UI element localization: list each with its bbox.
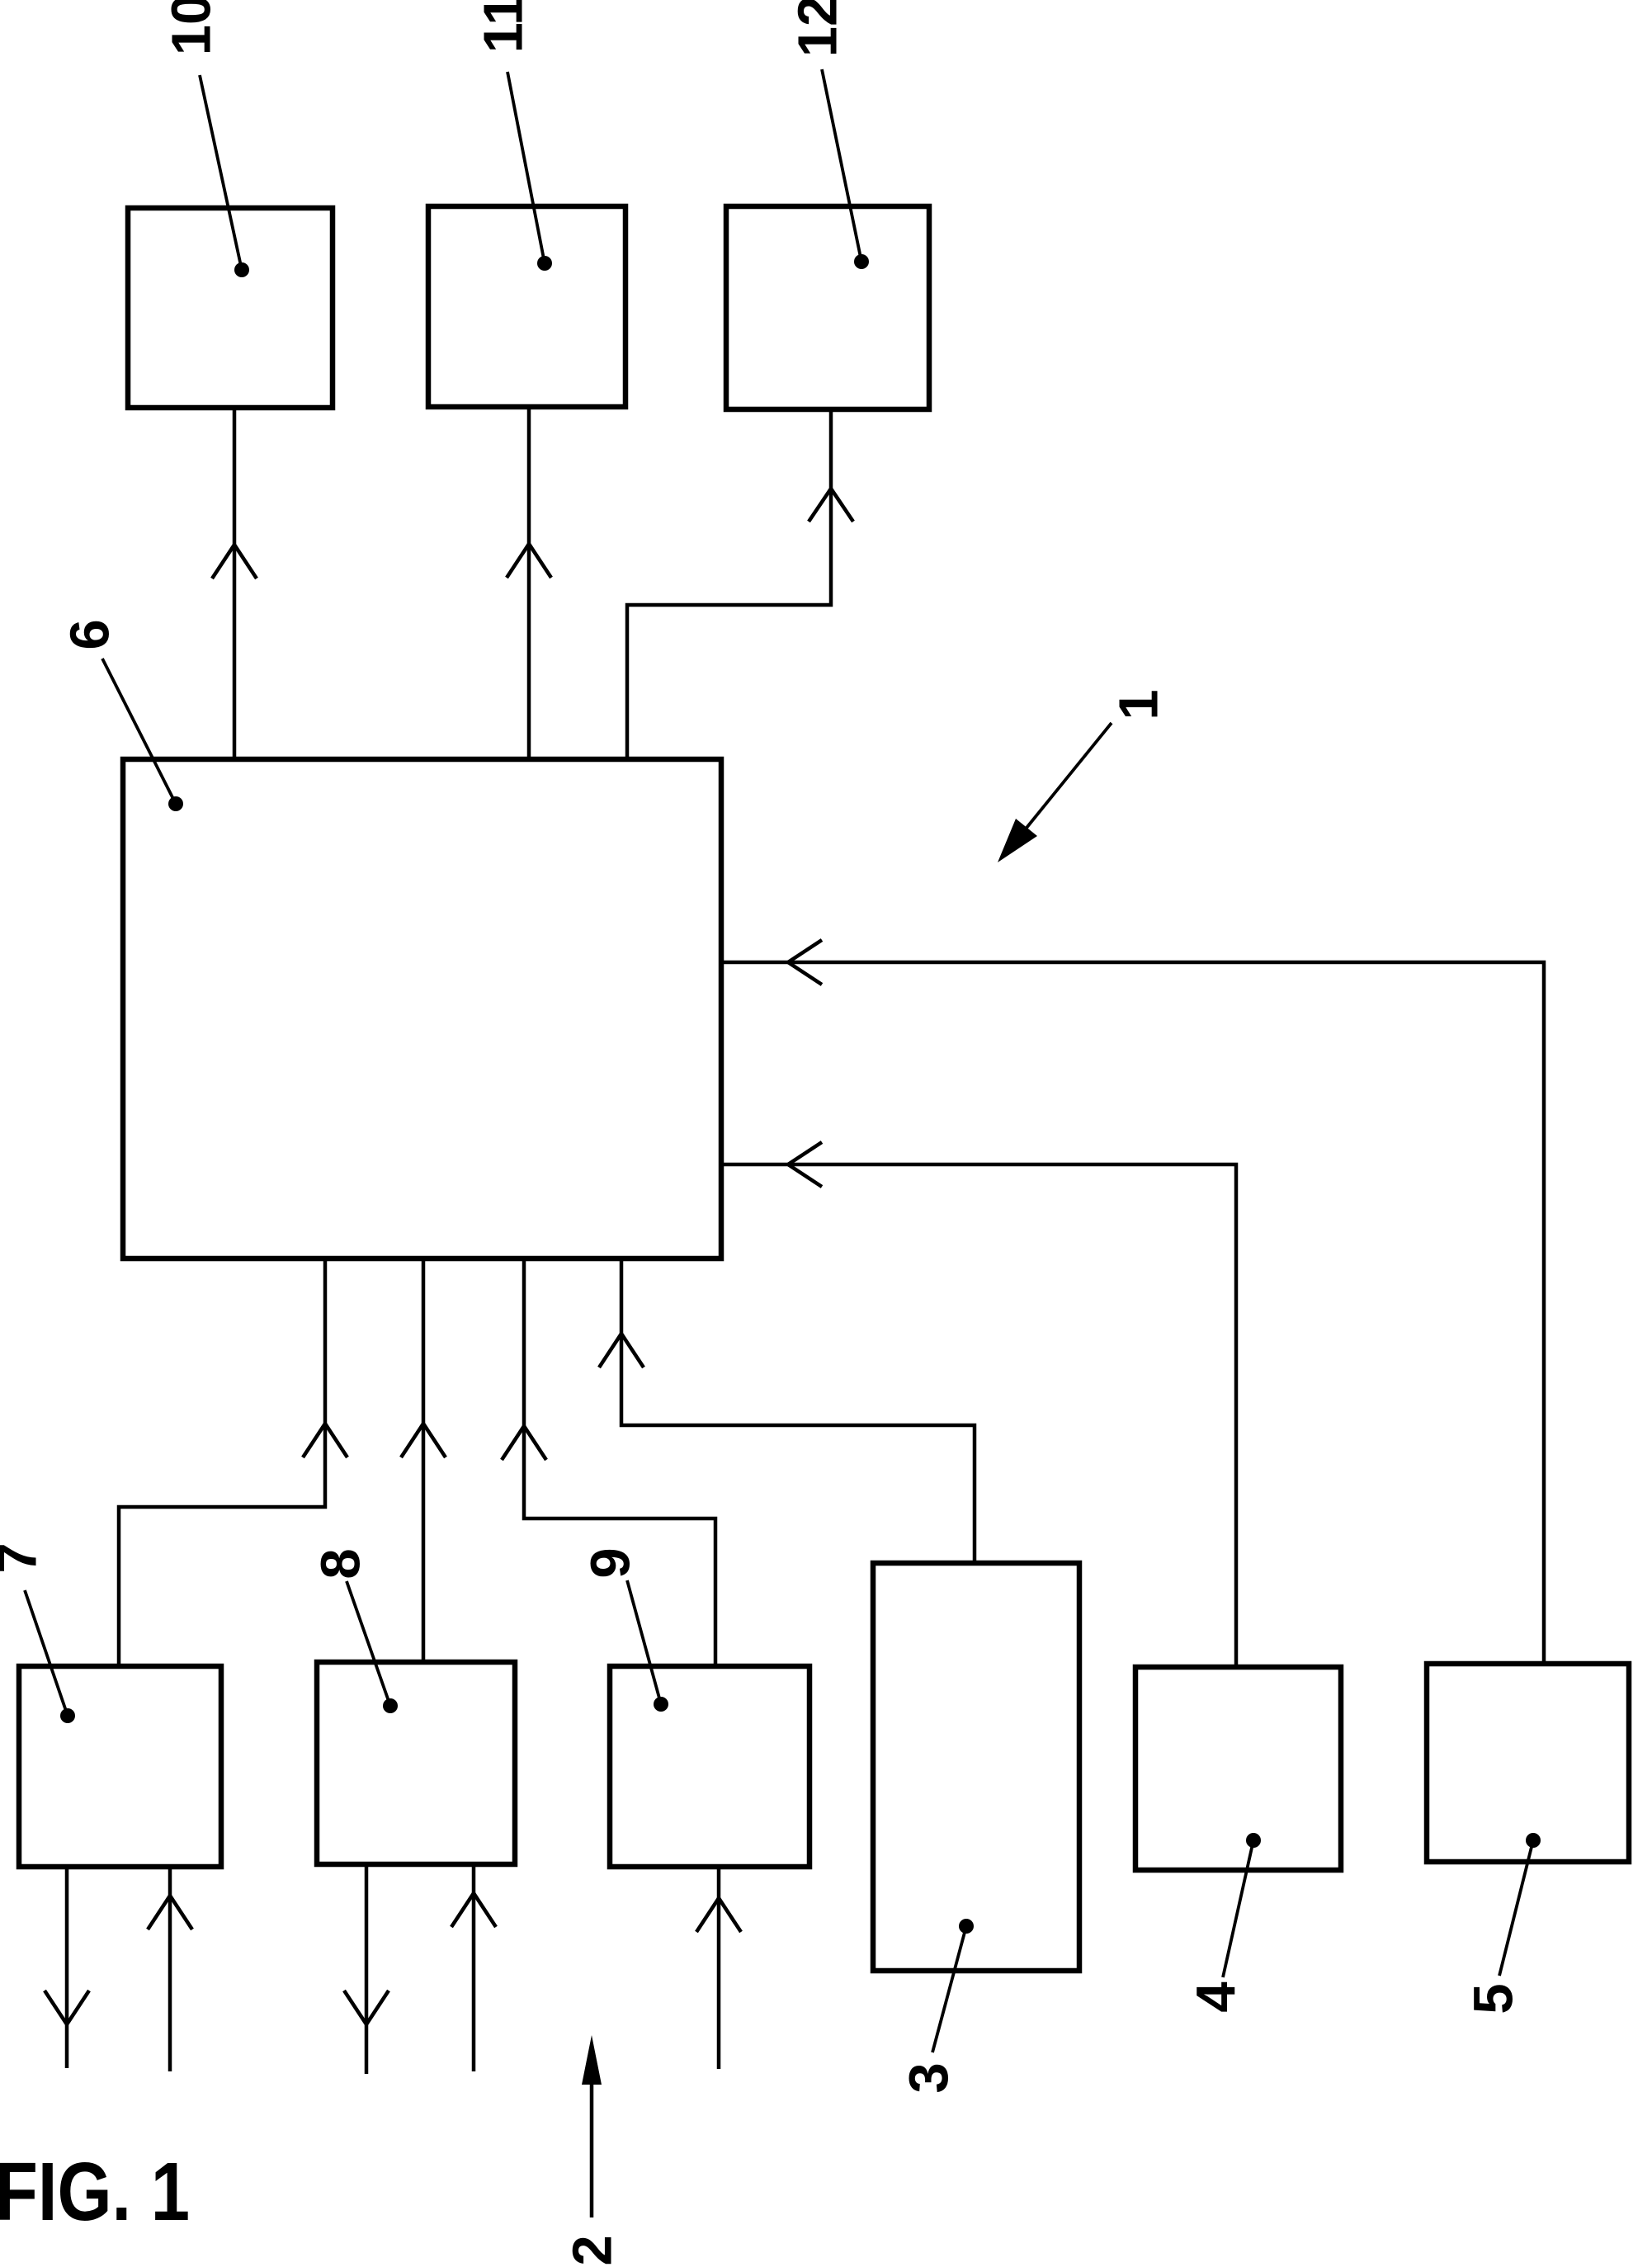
leader line 11 [507, 72, 545, 263]
arrowhead up on input of box7 [148, 1896, 192, 1929]
wire box6 to box10 [233, 408, 237, 759]
wire box8 to box6 [422, 1259, 426, 1662]
arrowhead up on wire from box7 [303, 1424, 347, 1457]
box 8 [317, 1662, 515, 1864]
svg-text:6: 6 [59, 619, 121, 649]
svg-text:5: 5 [1463, 1983, 1525, 2014]
svg-text:4: 4 [1186, 1981, 1248, 2012]
arrow 2 pointer [590, 2083, 594, 2217]
arrowhead up on wire from box3 [599, 1334, 644, 1367]
box 12 [726, 206, 929, 409]
box 4 [1135, 1667, 1341, 1870]
output line below box7 [65, 1867, 69, 2068]
arrowhead up on input of box9 [696, 1898, 741, 1932]
wire box6 to box11 [527, 407, 531, 759]
svg-text:10: 10 [161, 0, 223, 55]
leader line 8 [347, 1581, 390, 1706]
wire box3 to box6 [621, 1259, 975, 1563]
svg-text:7: 7 [0, 1542, 49, 1573]
arrow 1 pointer [1023, 723, 1112, 832]
box 11 [428, 206, 625, 407]
svg-text:1: 1 [1108, 689, 1170, 720]
box 9 [610, 1666, 809, 1867]
svg-text:8: 8 [310, 1548, 372, 1579]
wire box4 to box6 [721, 1164, 1236, 1667]
arrowhead up on wire to box11 [507, 544, 551, 578]
arrowhead up on wire to box9 [502, 1426, 546, 1460]
wire box6 to box12 [627, 409, 831, 759]
leader line 12 [822, 69, 861, 262]
arrowhead up on input of box8 [451, 1893, 496, 1927]
arrowhead down on output of box8 [344, 1991, 389, 2024]
arrowhead up on wire to box12 [809, 489, 853, 522]
leader line 4 [1223, 1840, 1253, 1977]
leader line 10 [200, 75, 242, 270]
svg-text:11: 11 [473, 0, 535, 53]
leader line 5 [1499, 1840, 1533, 1976]
arrowhead left on wire from box4 [788, 1142, 822, 1187]
input line below box7 [168, 1867, 172, 2071]
arrowhead up on wire to box10 [212, 545, 257, 579]
wire box6 to box9 [524, 1259, 715, 1666]
svg-text:2: 2 [562, 2235, 624, 2265]
box 6 [123, 759, 721, 1259]
svg-text:9: 9 [580, 1547, 642, 1578]
input line below box8 [472, 1864, 476, 2071]
leader line 3 [932, 1926, 966, 2052]
output line below box8 [365, 1864, 369, 2074]
leader line 7 [25, 1590, 68, 1716]
arrowhead down on output of box7 [45, 1991, 89, 2024]
arrowhead up on wire from box8 [401, 1424, 446, 1457]
box 3 [873, 1563, 1079, 1971]
box 7 [19, 1666, 221, 1867]
box 10 [128, 208, 333, 408]
box 5 [1427, 1664, 1629, 1862]
input line below box9 [717, 1867, 721, 2069]
wire box7 to box6 [119, 1259, 325, 1666]
svg-text:FIG. 1: FIG. 1 [0, 2146, 190, 2238]
svg-text:3: 3 [899, 2062, 961, 2093]
leader line 6 [102, 659, 176, 804]
leader line 9 [627, 1580, 661, 1704]
wire box5 to box6 [721, 962, 1544, 1664]
arrowhead left on wire from box5 [788, 940, 822, 985]
svg-text:12: 12 [787, 0, 849, 57]
